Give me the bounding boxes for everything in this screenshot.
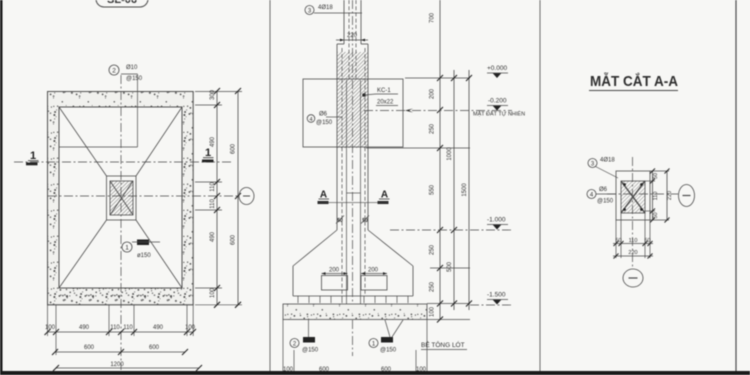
svg-text:220: 220: [347, 33, 358, 39]
svg-text:600: 600: [231, 234, 237, 245]
svg-text:50: 50: [615, 238, 621, 244]
svg-text:100: 100: [45, 325, 56, 331]
svg-text:110: 110: [110, 325, 120, 331]
svg-text:SL-06: SL-06: [107, 0, 137, 6]
svg-text:100: 100: [283, 367, 294, 373]
svg-text:500: 500: [447, 261, 453, 272]
svg-text:KC-1: KC-1: [377, 88, 391, 94]
svg-text:700: 700: [430, 12, 436, 23]
svg-text:220: 220: [628, 250, 637, 256]
svg-text:BÊ TÔNG LÓT: BÊ TÔNG LÓT: [421, 340, 465, 349]
svg-text:250: 250: [430, 123, 436, 134]
svg-text:110: 110: [210, 182, 216, 192]
svg-text:600: 600: [149, 345, 160, 351]
svg-text:@150: @150: [380, 348, 397, 354]
svg-text:1: 1: [372, 342, 376, 348]
svg-text:50: 50: [653, 212, 659, 218]
svg-text:3: 3: [308, 9, 312, 15]
svg-text:200: 200: [329, 268, 340, 274]
svg-text:3: 3: [591, 162, 595, 168]
svg-text:200: 200: [368, 268, 379, 274]
svg-text:490: 490: [79, 325, 90, 331]
svg-text:110: 110: [653, 192, 659, 201]
svg-text:1: 1: [125, 245, 129, 252]
svg-text:250: 250: [430, 244, 436, 255]
svg-text:@150: @150: [126, 76, 143, 82]
svg-text:300: 300: [210, 89, 216, 100]
svg-text:Ø6: Ø6: [319, 112, 328, 118]
svg-text:100: 100: [416, 367, 427, 373]
svg-text:MẶT ĐẤT TỰ NHIÊN: MẶT ĐẤT TỰ NHIÊN: [473, 110, 525, 118]
svg-text:4Ø18: 4Ø18: [600, 158, 615, 164]
svg-text:550: 550: [430, 184, 436, 195]
svg-text:600: 600: [319, 367, 330, 373]
svg-text:-1.500: -1.500: [487, 292, 506, 299]
svg-text:100: 100: [430, 306, 436, 317]
svg-text:-1.000: -1.000: [487, 217, 506, 224]
svg-text:-0.200: -0.200: [488, 98, 507, 105]
svg-text:250: 250: [430, 281, 436, 292]
svg-text:490: 490: [153, 325, 164, 331]
svg-text:4: 4: [309, 117, 312, 123]
svg-text:Ø6: Ø6: [599, 187, 608, 193]
svg-text:1200: 1200: [110, 362, 124, 368]
svg-text:50: 50: [644, 238, 650, 244]
svg-text:@150: @150: [302, 348, 319, 354]
svg-text:110: 110: [629, 238, 638, 244]
svg-text:600: 600: [84, 345, 95, 351]
svg-text:2: 2: [293, 342, 297, 348]
svg-text:100: 100: [210, 287, 216, 298]
svg-text:1000: 1000: [447, 147, 453, 161]
svg-text:4Ø18: 4Ø18: [318, 5, 333, 11]
svg-text:110: 110: [123, 325, 133, 331]
svg-text:100: 100: [185, 325, 196, 331]
svg-text:490: 490: [210, 136, 216, 147]
svg-text:110: 110: [210, 199, 216, 209]
svg-text:4: 4: [590, 193, 594, 199]
svg-text:ø150: ø150: [137, 253, 151, 259]
svg-text:600: 600: [381, 367, 392, 373]
svg-text:600: 600: [231, 143, 237, 154]
svg-text:1500: 1500: [462, 183, 468, 197]
svg-text:20x22: 20x22: [377, 100, 394, 106]
svg-text:@150: @150: [316, 120, 333, 126]
svg-text:490: 490: [210, 231, 216, 242]
svg-text:200: 200: [430, 88, 436, 99]
svg-text:@150: @150: [597, 199, 614, 205]
svg-text:Ø10: Ø10: [126, 65, 138, 71]
svg-text:MẴT CẮT A-A: MẴT CẮT A-A: [590, 72, 678, 90]
svg-text:2: 2: [112, 68, 116, 75]
svg-text:50: 50: [653, 173, 659, 179]
svg-text:+0.000: +0.000: [487, 65, 507, 72]
svg-text:220: 220: [667, 191, 673, 200]
